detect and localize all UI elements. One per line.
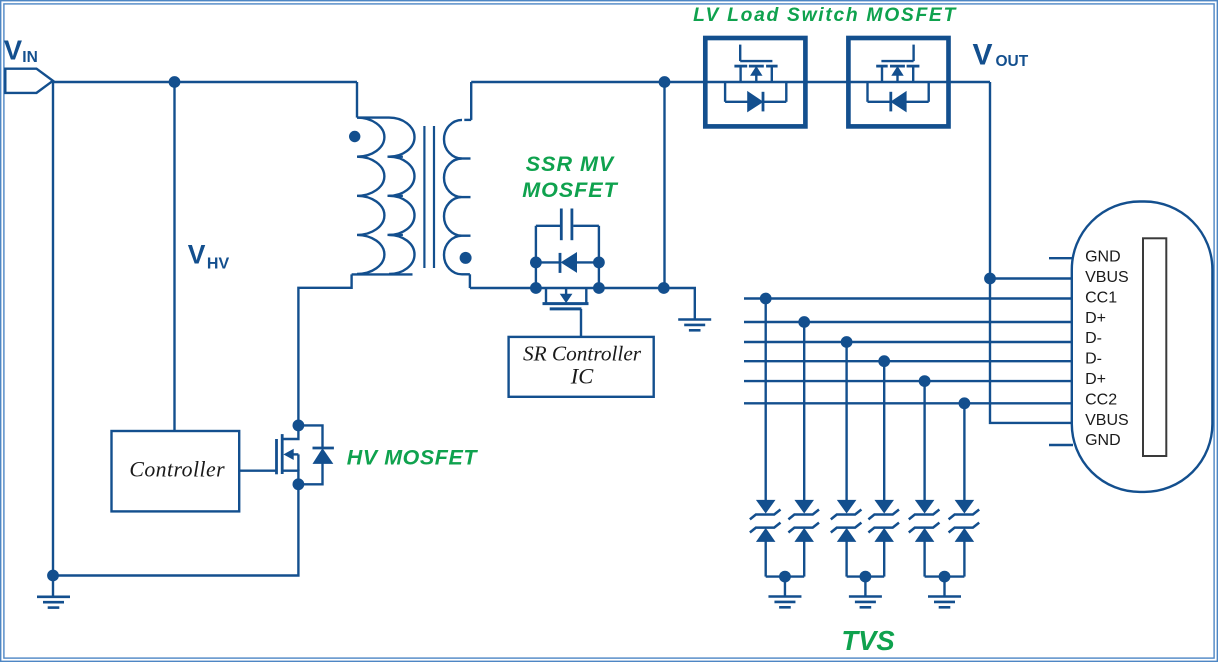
node TVS pair 1 [779, 571, 791, 583]
svg-text:Controller: Controller [129, 457, 225, 481]
ground G5 [928, 597, 961, 608]
transistor Q3 gate bar [550, 307, 582, 310]
diode D1 triangle [313, 449, 332, 463]
svg-text:HV: HV [207, 255, 230, 272]
node TVS tap D- [878, 355, 890, 367]
label MOSFET [522, 178, 618, 202]
SR controller box U3 [509, 337, 654, 397]
transformer T1 primary cusp tails [388, 157, 403, 235]
transformer T1 primary bottom connector [352, 273, 413, 275]
svg-text:HV MOSFET: HV MOSFET [347, 446, 479, 470]
svg-text:IN: IN [22, 49, 38, 66]
label SR Controller [523, 342, 642, 366]
wire TVS pair 3 ground stub [943, 577, 945, 597]
svg-text:V: V [188, 240, 206, 270]
transistor Q1 channel bar [281, 434, 284, 474]
transformer T1 secondary polarity dot [460, 252, 472, 264]
node TVS tap D+ [798, 316, 810, 328]
node bottom left junction [47, 570, 59, 582]
wire through LV box Q5 [848, 81, 947, 83]
wire secondary top entry [464, 82, 471, 120]
node VBUS tap [984, 273, 996, 285]
wire TVS pair 2 join [847, 575, 885, 577]
LV load switch MOSFET box Q4 [705, 38, 805, 126]
transistor Q1 drain stub [283, 425, 298, 439]
ground G1 [37, 597, 70, 608]
diode D1 body diode wire [298, 425, 322, 484]
wire controller gate [239, 470, 276, 472]
wire SSR row [470, 287, 664, 289]
wire bus D+ [744, 321, 1073, 323]
node SSR diode left [530, 257, 542, 269]
wire LV box2 to VOUT corner [947, 81, 990, 83]
wire VIN left vertical [52, 82, 54, 576]
diode D2 triangle [562, 253, 577, 272]
svg-text:GND: GND [1085, 432, 1121, 449]
node SSR ground junction [658, 282, 670, 294]
transformer T1 primary top connector [357, 116, 389, 118]
USB-C connector J1 shell [1072, 202, 1213, 492]
label SSR MV [526, 152, 615, 176]
wire TVS pair 2 ground stub [864, 577, 866, 597]
svg-text:V: V [973, 38, 993, 71]
svg-text:MOSFET: MOSFET [522, 178, 618, 202]
capacitor C1 plates [561, 209, 572, 241]
wire bottom return rail [53, 484, 298, 575]
wire SSR ground elbow [664, 288, 695, 320]
svg-text:OUT: OUT [996, 53, 1029, 70]
svg-text:CC1: CC1 [1085, 289, 1117, 306]
wire secondary bottom exit [462, 274, 470, 288]
svg-text:SR Controller: SR Controller [523, 342, 642, 366]
svg-text:VBUS: VBUS [1085, 412, 1129, 429]
svg-text:TVS: TVS [841, 625, 894, 656]
svg-text:VBUS: VBUS [1085, 269, 1129, 286]
wire ground stub left [52, 576, 54, 597]
ground G4 [849, 597, 882, 608]
wire TVS pair 1 ground stub [784, 577, 786, 597]
wire between LV boxes [805, 81, 848, 83]
node TVS pair 2 [860, 571, 872, 583]
label TVS [841, 625, 894, 656]
wire GND pin stub bottom [1049, 444, 1073, 446]
label VOUT [973, 38, 1029, 71]
wire VOUT vertical [990, 82, 1073, 423]
label HV MOSFET [347, 446, 479, 470]
svg-text:SSR MV: SSR MV [526, 152, 615, 176]
input port symbol VIN [5, 69, 53, 93]
wire TVS pair 1 join [766, 575, 805, 577]
node TVS tap D- [841, 336, 853, 348]
USB-C pin labels [1085, 249, 1129, 450]
USB-C connector tongue [1143, 238, 1166, 456]
svg-text:CC2: CC2 [1085, 391, 1117, 408]
svg-text:LV Load Switch MOSFET: LV Load Switch MOSFET [693, 5, 957, 26]
wire Q3 gate to SR controller [580, 309, 582, 337]
transformer T1 primary polarity dot [349, 131, 360, 142]
TVS diode Z6 [949, 403, 980, 576]
wire bus D- [744, 341, 1073, 343]
transformer T1 secondary cusp tails [462, 159, 471, 236]
svg-text:D+: D+ [1085, 310, 1106, 327]
svg-text:IC: IC [570, 363, 594, 388]
TVS diode Z2 [788, 322, 819, 577]
transistor Q3 stubs [546, 288, 586, 304]
wire bus CC1 [744, 297, 1073, 299]
label VIN [4, 35, 38, 66]
node SSR row left [530, 282, 542, 294]
transformer T1 secondary winding [444, 120, 462, 274]
node TVS tap D+ [919, 375, 931, 387]
transformer T1 core [424, 126, 434, 268]
wire VBUS pin1 [990, 277, 1073, 279]
wire through LV box Q4 [705, 81, 805, 83]
transistor Q1 source stub [283, 471, 298, 485]
label Controller [129, 457, 225, 481]
node TVS tap CC2 [959, 397, 971, 409]
label LV Load Switch MOSFET [693, 5, 957, 26]
node Q1 drain [293, 420, 305, 432]
node SSR row right [593, 282, 605, 294]
node VHV tap [169, 76, 181, 88]
TVS diode Z3 [831, 342, 862, 577]
transistor Q3 body arrow [561, 288, 572, 302]
wire primary to HV MOSFET drain [298, 274, 351, 425]
diode D2 leads [536, 261, 599, 263]
wire secondary top rail [471, 81, 705, 83]
node TVS tap CC1 [760, 293, 772, 305]
TVS diode Z4 [868, 361, 899, 576]
TVS diode Z1 [750, 299, 781, 577]
diode D1 cathode bar [313, 447, 334, 450]
svg-text:GND: GND [1085, 249, 1121, 266]
TVS diode Z5 [909, 381, 940, 576]
wire SSR loop right [598, 226, 600, 288]
wire primary top entry [356, 82, 358, 118]
ground G2 [678, 320, 711, 331]
wire top input rail [53, 81, 357, 83]
svg-text:D+: D+ [1085, 371, 1106, 388]
node SSR diode right [593, 257, 605, 269]
wire bus D- [744, 360, 1073, 362]
transistor Q1 gate bar [275, 439, 278, 474]
wire VHV vertical [173, 82, 175, 431]
LV load switch MOSFET box Q5 [848, 38, 948, 126]
wire SSR loop left [535, 226, 537, 288]
wire TVS pair 3 join [925, 575, 965, 577]
node TVS pair 3 [939, 571, 951, 583]
transformer T1 primary outer winding [357, 118, 384, 274]
transformer T1 primary inner winding [389, 118, 415, 274]
ground G3 [768, 597, 801, 608]
svg-text:D-: D- [1085, 330, 1102, 347]
svg-text:V: V [4, 35, 23, 66]
wire GND pin stub top [1049, 257, 1073, 259]
transistor Q3 channel bar [543, 302, 589, 305]
svg-text:D-: D- [1085, 351, 1102, 368]
wire bus CC2 [744, 402, 1073, 404]
node Q1 source [293, 478, 305, 490]
label IC [570, 363, 594, 388]
label VHV [188, 240, 230, 273]
capacitor C1 leads [536, 225, 599, 227]
wire bus D+ [744, 380, 1073, 382]
controller box U2 [112, 431, 240, 511]
node SSR ground tap top [659, 76, 671, 88]
transistor Q1 body arrow [284, 450, 298, 471]
diode D2 cathode bar [559, 253, 562, 273]
wire SSR ground vertical [663, 82, 665, 288]
